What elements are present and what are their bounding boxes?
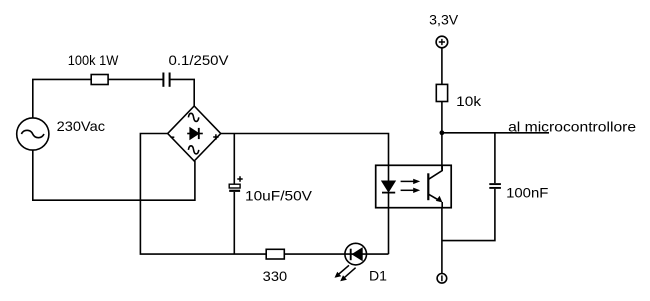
optocoupler U1 package	[376, 165, 452, 207]
optocoupler coupling arrows	[401, 179, 421, 193]
bridge internal diode symbol	[187, 128, 203, 139]
wire: resistor R1 to capacitor C1	[108, 78, 163, 80]
svg-text:al microcontrollore: al microcontrollore	[508, 118, 636, 134]
wire: output rail to microcontroller	[442, 132, 549, 134]
wire: resistor R3 to output node	[441, 102, 443, 133]
wire: optocoupler emitter to ground terminal	[441, 208, 443, 274]
resistor R3	[436, 84, 447, 101]
svg-text:D1: D1	[369, 267, 387, 283]
svg-text:100k 1W: 100k 1W	[68, 52, 119, 68]
wire: power terminal to resistor R3	[441, 48, 443, 85]
wire: capacitor C3 to emitter rail	[442, 189, 495, 241]
power terminal 3,3V	[436, 36, 448, 48]
resistor R1	[91, 75, 108, 85]
svg-text:3,3V: 3,3V	[429, 12, 459, 28]
wire: capacitor C2 to bottom rail	[233, 192, 235, 254]
wire: resistor R2 to optocoupler LED cathode (through D1)	[284, 253, 388, 255]
bridge AC tilde top	[188, 113, 198, 121]
AC source V1	[17, 118, 49, 150]
capacitor C3	[489, 184, 501, 188]
capacitor C2 polarized	[229, 184, 240, 191]
wire: output rail down to capacitor C3	[494, 133, 496, 183]
LED D1 emission arrows	[335, 265, 356, 281]
svg-text:10uF/50V: 10uF/50V	[245, 188, 313, 204]
optocoupler U1 internal LED	[382, 181, 395, 192]
resistor R2	[266, 249, 284, 259]
wire: D1 rail up to optocoupler LED cathode	[388, 193, 390, 255]
bridge - output mark	[171, 136, 175, 138]
wire: bridge plus rail to optocoupler LED anode	[221, 134, 389, 182]
LED D1	[345, 243, 367, 265]
bridge + output mark	[213, 134, 218, 139]
ground terminal	[437, 274, 447, 284]
svg-text:0.1/250V: 0.1/250V	[169, 52, 230, 68]
wire: AC source top to resistor R1	[33, 79, 91, 118]
capacitor C1	[163, 73, 169, 87]
wire: AC source bottom to bridge bottom vertex	[33, 150, 195, 200]
svg-text:230Vac: 230Vac	[57, 118, 105, 134]
junction dot output node	[440, 130, 445, 135]
wire: bridge minus to bottom-left rail	[140, 134, 266, 255]
wire: capacitor C1 to bridge top vertex	[170, 79, 195, 106]
optocoupler transistor Q1	[428, 165, 442, 207]
bridge AC tilde bottom	[188, 146, 198, 154]
wire: plus rail down to capacitor C2	[233, 134, 235, 185]
polarity mark + of C2	[237, 176, 242, 181]
svg-text:10k: 10k	[456, 93, 482, 109]
bridge rectifier B1 diamond	[168, 106, 221, 161]
svg-text:330: 330	[263, 268, 288, 284]
svg-text:100nF: 100nF	[506, 185, 548, 201]
wire: output node to optocoupler collector	[441, 133, 443, 170]
